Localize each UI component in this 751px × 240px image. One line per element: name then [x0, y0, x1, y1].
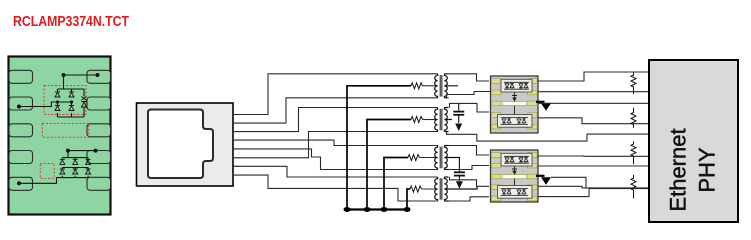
- TVS1 bottom cell box: [498, 115, 533, 128]
- capacitor C2: [454, 158, 465, 182]
- TVS2 middle gnd strip: [491, 174, 537, 178]
- pin pad R5: [87, 177, 111, 190]
- pin pad L3: [9, 124, 33, 137]
- RJ45 jack opening: [148, 110, 213, 179]
- TVS1 top cell box: [501, 79, 532, 92]
- wire T2 top / gnd line to TVS1 pin4: [450, 103, 490, 112]
- node dot B3: [17, 181, 21, 185]
- pin pad R2: [87, 97, 111, 110]
- wire TVS2 pin R4 to PHY: [538, 186, 649, 188]
- node dot B1: [66, 149, 70, 153]
- resistor R7 termination: [631, 141, 636, 164]
- pin pad L2: [9, 97, 33, 110]
- wire T1 bottom to TVS1 pin2: [447, 92, 491, 98]
- TVS2 pads left: [491, 153, 501, 201]
- TVS2 top cell box: [501, 153, 532, 166]
- TVS array U3 body: [491, 150, 539, 202]
- TVS1 pads left: [491, 79, 501, 129]
- diode D7: [73, 159, 78, 164]
- bus riser 1: [347, 86, 411, 210]
- zener diode Z1: [81, 89, 86, 107]
- TVS1 center gnd link: [512, 92, 517, 115]
- diode D8: [73, 169, 78, 174]
- pin pad R3: [87, 124, 111, 137]
- node dot A2: [96, 73, 100, 77]
- node dot A1: [62, 73, 66, 77]
- chassis ground arrow 2: [456, 181, 463, 189]
- wire W5 pin5 to T3 bottom: [234, 149, 438, 170]
- TVS2 bottom cell diodes: [501, 189, 529, 196]
- diode D4: [69, 106, 74, 111]
- diode D5: [60, 159, 65, 164]
- TVS2 pads right: [528, 153, 538, 201]
- resistor R2: [411, 117, 423, 123]
- wire W3 pin3 to T2 top: [234, 108, 438, 132]
- resistor R8 termination: [631, 175, 636, 198]
- TVS1 middle gnd strip: [491, 101, 537, 105]
- Ethernet PHY block: [649, 60, 738, 222]
- RJ45 connector J1 body: [137, 103, 234, 186]
- common termination bus: [347, 208, 407, 210]
- pin pad L4: [9, 151, 33, 164]
- svg-text:PHY: PHY: [695, 147, 720, 193]
- connector pin stubs: [234, 115, 242, 176]
- pin pad L5: [9, 177, 33, 190]
- wire W7 pin7 to T4 top: [234, 166, 438, 177]
- chassis ground arrow 1: [455, 124, 462, 132]
- TVS1 bottom cell diodes: [501, 118, 529, 125]
- red dashed outline box 1: [44, 86, 86, 115]
- Ethernet PHY label: [666, 128, 720, 211]
- bottom diode array wires: [19, 151, 97, 184]
- wire W8 pin8 to T4 bottom: [234, 175, 438, 201]
- wire TVS2 pin R2 to PHY: [538, 165, 649, 167]
- wire T3 top to TVS2 pin1: [449, 146, 490, 156]
- transformer T2: [435, 108, 452, 132]
- resistor R5 termination: [631, 72, 636, 94]
- node dot A3: [17, 105, 21, 109]
- wire W6 pin6 to T2 bottom: [234, 132, 438, 158]
- diode D6: [60, 169, 65, 174]
- svg-text:Ethernet: Ethernet: [666, 128, 691, 211]
- TVS1 pads right: [528, 79, 538, 129]
- wire T3 bottom to TVS2 pin2: [449, 166, 490, 170]
- bus riser 4: [407, 189, 410, 210]
- resistor R1: [411, 83, 423, 89]
- IC package body U1: [9, 57, 111, 215]
- diode D2: [55, 106, 60, 111]
- TVS1 top cell diodes: [504, 82, 529, 89]
- top diode array wires: [19, 75, 98, 117]
- resistor R3: [408, 155, 420, 161]
- TVS2 ground arrow: [536, 175, 545, 177]
- wire TVS1 gnd pin to PHY: [538, 102, 649, 104]
- capacitor C1: [453, 103, 464, 123]
- resistor R6 termination: [631, 108, 636, 128]
- pin pad L1: [9, 70, 33, 83]
- wire TVS1 pin R2 to PHY: [538, 91, 649, 93]
- TVS2 center gnd link: [512, 166, 517, 186]
- wire T2 bottom bypass under TVS1 to PHY: [447, 132, 650, 142]
- diode D3: [69, 92, 74, 97]
- diode D9: [86, 159, 91, 164]
- wire TVS2 pin R5 to PHY: [538, 189, 649, 197]
- TVS2 bottom cell box: [498, 186, 533, 199]
- wire T4 top to TVS2 pin4: [450, 177, 490, 186]
- TVS array U2 body: [491, 76, 539, 133]
- red dashed outline box 2: [42, 123, 88, 137]
- wire TVS1 pin R1 to PHY: [538, 72, 649, 81]
- wire W1 pin1 to T1 top: [234, 74, 438, 115]
- node dot A5: [70, 100, 73, 103]
- wire T1 top to TVS1 pin1: [449, 74, 490, 81]
- bus riser 2: [367, 120, 411, 210]
- junction dot J3: [381, 207, 388, 212]
- transformer T1: [435, 74, 458, 98]
- junction dot J4: [404, 207, 411, 212]
- diode D10: [86, 169, 91, 174]
- TVS1 ground arrow: [536, 101, 545, 103]
- wire W4 pin4 to T3 top: [234, 140, 438, 145]
- wire TVS1 pin R4 to PHY: [538, 118, 649, 124]
- TVS2 top cell diodes: [504, 156, 529, 163]
- pin pad R4: [87, 151, 111, 164]
- svg-text:RCLAMP3374N.TCT: RCLAMP3374N.TCT: [13, 13, 129, 30]
- bus riser 3: [384, 158, 408, 210]
- resistor R4: [410, 186, 422, 192]
- wire TVS2 pin R1 to PHY: [538, 155, 649, 157]
- junction dot J1: [344, 207, 351, 212]
- junction dot J2: [364, 207, 371, 212]
- transformer T4: [435, 177, 477, 201]
- wire W2 pin2 to T1 bottom: [234, 98, 438, 123]
- pin pad R1: [87, 70, 111, 83]
- node dot A4: [56, 100, 59, 103]
- transformer T3: [435, 146, 460, 170]
- wire TVS2 gnd line to PHY: [551, 177, 586, 188]
- red dashed outline box 3: [40, 164, 54, 179]
- diode D1: [55, 92, 60, 97]
- wire T4 bottom to TVS2 pin5: [449, 197, 490, 201]
- node dot B2: [94, 149, 98, 153]
